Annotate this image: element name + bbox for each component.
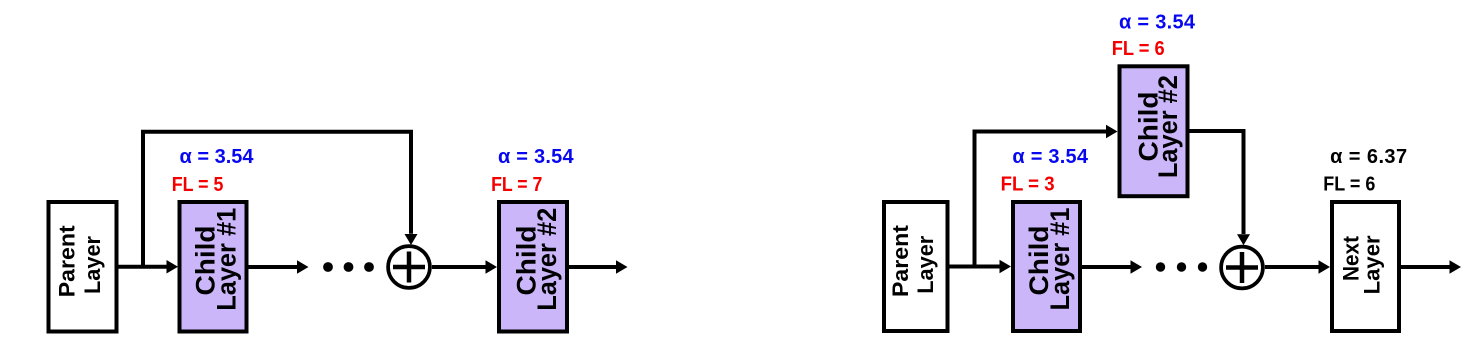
svg-text:Layer: Layer: [1360, 235, 1385, 294]
svg-text:FL = 5: FL = 5: [172, 174, 224, 196]
svg-text:α = 3.54: α = 3.54: [1012, 146, 1088, 168]
svg-text:Parent: Parent: [55, 225, 80, 298]
svg-text:FL = 6: FL = 6: [1112, 38, 1165, 60]
svg-text:Layer #1: Layer #1: [212, 208, 242, 311]
svg-text:Layer #2: Layer #2: [1153, 75, 1183, 178]
svg-text:Layer: Layer: [80, 236, 105, 294]
svg-text:Layer: Layer: [913, 235, 938, 293]
svg-text:Parent: Parent: [888, 224, 913, 297]
svg-text:FL = 3: FL = 3: [1001, 174, 1055, 196]
svg-text:α = 6.37: α = 6.37: [1330, 146, 1407, 168]
svg-text:α = 3.54: α = 3.54: [180, 146, 255, 168]
svg-text:α = 3.54: α = 3.54: [1119, 12, 1196, 34]
svg-text:FL = 7: FL = 7: [491, 174, 542, 196]
svg-text:α = 3.54: α = 3.54: [498, 146, 575, 168]
svg-text:Layer #1: Layer #1: [1045, 208, 1075, 311]
svg-text:Layer #2: Layer #2: [532, 208, 562, 311]
svg-text:FL = 6: FL = 6: [1323, 174, 1375, 196]
